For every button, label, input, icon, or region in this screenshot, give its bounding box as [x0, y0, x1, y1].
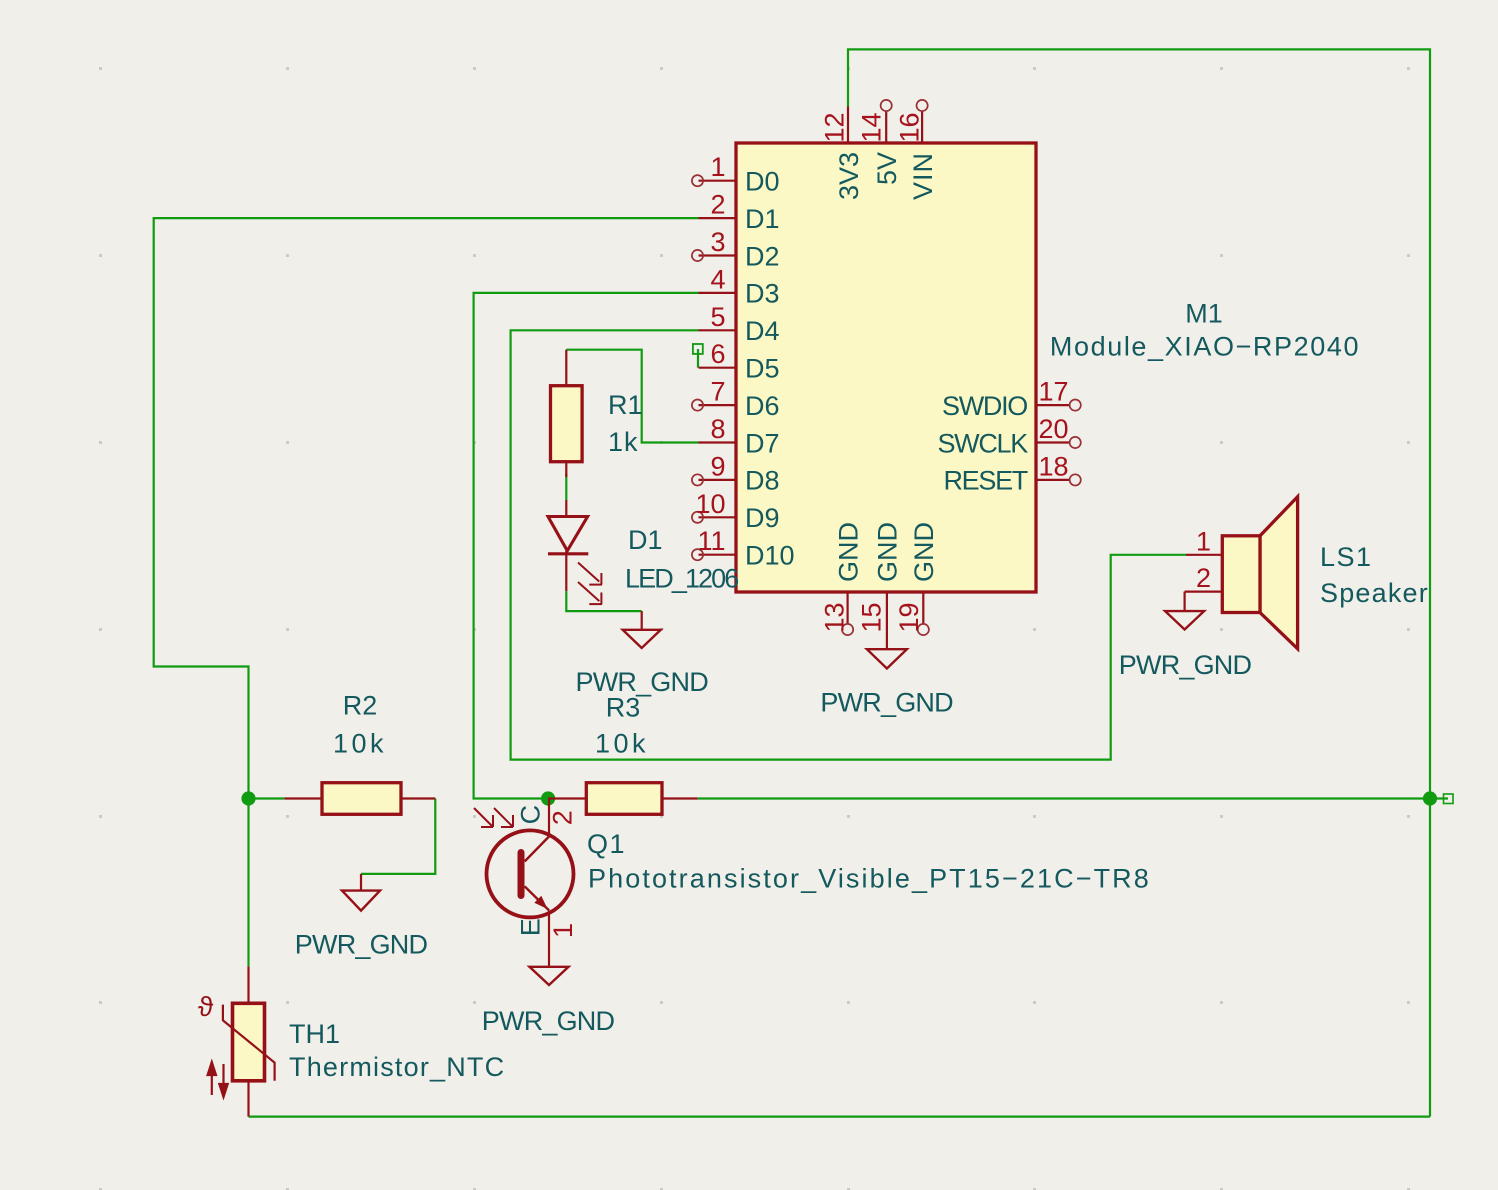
svg-text:Phototransistor_Visible_PT15−2: Phototransistor_Visible_PT15−21C−TR8 [588, 864, 1151, 894]
svg-text:12: 12 [820, 112, 850, 142]
speaker LS1 [1186, 554, 1222, 556]
svg-text:D7: D7 [745, 428, 780, 458]
svg-text:1: 1 [1196, 526, 1211, 556]
svg-text:D0: D0 [745, 167, 780, 197]
svg-text:D1: D1 [628, 525, 663, 555]
svg-text:5V: 5V [872, 152, 902, 185]
wire D5 stub with open end square at M1 pin6 [697, 349, 699, 368]
wire right stub to open end at right junction [1430, 797, 1448, 799]
svg-text:SWCLK: SWCLK [937, 428, 1028, 458]
resistor R1 1k [565, 350, 567, 386]
svg-text:D8: D8 [745, 466, 780, 496]
svg-text:3V3: 3V3 [834, 152, 864, 200]
svg-text:RESET: RESET [943, 466, 1027, 496]
LED D1 LED_1206 [565, 500, 567, 517]
svg-text:3: 3 [710, 227, 725, 257]
svg-text:5: 5 [710, 302, 725, 332]
M1 bottom pin stubs 13,15,19 [848, 592, 924, 649]
junction left (248.5,798.5) [241, 791, 255, 805]
svg-text:19: 19 [894, 602, 924, 632]
junction mid (548.1,798.5) [541, 791, 555, 805]
svg-text:16: 16 [895, 112, 925, 142]
svg-text:D9: D9 [745, 503, 780, 533]
svg-text:R3: R3 [606, 693, 641, 723]
svg-text:LED_1206: LED_1206 [625, 564, 738, 594]
svg-text:Speaker: Speaker [1320, 578, 1429, 608]
svg-text:10k: 10k [595, 729, 649, 759]
svg-text:7: 7 [710, 377, 725, 407]
M1 right pin circles 17,20,18 [1070, 400, 1081, 486]
svg-text:C: C [516, 805, 546, 825]
svg-text:11: 11 [697, 526, 725, 556]
wire R2 right pin to ground [361, 799, 435, 874]
svg-text:ϑ: ϑ [198, 991, 214, 1022]
svg-text:1: 1 [710, 152, 725, 182]
wire D4 net: M1 pin5 left, down, across, up to speaker pin1 [511, 330, 1186, 759]
wire bottom net: TH1 bottom to right vertical [249, 1115, 1431, 1117]
M1 left pin numbers [695, 152, 725, 556]
M1 top pin stubs 12,14,16 [848, 107, 922, 144]
svg-text:Q1: Q1 [587, 829, 626, 859]
svg-text:2: 2 [547, 810, 577, 825]
svg-text:PWR_GND: PWR_GND [575, 667, 708, 697]
svg-text:D10: D10 [745, 541, 795, 571]
svg-text:PWR_GND: PWR_GND [295, 930, 428, 960]
svg-text:15: 15 [857, 602, 887, 632]
power ground symbol PWR_GND at D1 [641, 611, 643, 630]
wire junction to R2 left pin [249, 797, 285, 799]
M1 right pin names [937, 391, 1028, 496]
module U/M1 body Module_XIAO-RP2040 [736, 143, 1036, 592]
svg-text:17: 17 [1039, 377, 1069, 407]
svg-text:2: 2 [710, 190, 725, 220]
svg-text:13: 13 [819, 602, 849, 632]
svg-text:6: 6 [710, 339, 725, 369]
svg-text:GND: GND [833, 522, 863, 582]
svg-text:SWDIO: SWDIO [942, 391, 1027, 421]
wire D3 net: M1 pin4 left, down, to Q1 collector junction [474, 293, 699, 799]
power ground symbol PWR_GND at M1 pin 15 [867, 649, 907, 668]
transistor Q1 Phototransistor PT15-21C-TR8 [487, 830, 574, 917]
svg-text:PWR_GND: PWR_GND [482, 1006, 615, 1036]
svg-text:4: 4 [710, 264, 725, 294]
svg-text:14: 14 [856, 112, 886, 142]
svg-text:Module_XIAO−RP2040: Module_XIAO−RP2040 [1050, 332, 1360, 362]
wire D1 net: M1 pin2 left, down, to R2/TH1 junction [154, 218, 699, 966]
svg-text:2: 2 [1196, 563, 1211, 593]
unconnected wire end square (right) [1444, 794, 1454, 804]
svg-text:GND: GND [873, 522, 903, 582]
svg-text:D5: D5 [745, 354, 780, 384]
M1 left pin stubs pins 1-11 [699, 181, 737, 555]
svg-text:M1: M1 [1185, 299, 1223, 329]
svg-text:Thermistor_NTC: Thermistor_NTC [289, 1052, 505, 1082]
svg-text:PWR_GND: PWR_GND [1119, 650, 1252, 680]
M1 unconnected pin circles left [692, 175, 703, 560]
power ground symbol PWR_GND at Q1 emitter [530, 967, 569, 985]
svg-text:D3: D3 [745, 279, 780, 309]
Q1 incident light arrows [474, 808, 513, 827]
power ground symbol PWR_GND at R2 [360, 874, 362, 891]
svg-text:1: 1 [548, 923, 578, 938]
svg-text:E: E [516, 918, 546, 936]
svg-text:10: 10 [695, 489, 725, 519]
svg-text:R1: R1 [608, 390, 643, 420]
svg-text:20: 20 [1039, 414, 1069, 444]
M1 bottom pin circles 13,19 [842, 624, 929, 635]
resistor R3 10k [548, 797, 586, 799]
svg-text:9: 9 [710, 451, 725, 481]
wire D7 net: M1 pin8 to R1 top [566, 350, 698, 443]
svg-text:D4: D4 [745, 316, 780, 346]
wire D1 LED bottom to ground [566, 591, 641, 611]
svg-text:D1: D1 [745, 204, 780, 234]
M1 bottom pin names GND GND GND (rotated) [833, 522, 939, 582]
wire 3V3 net: M1 pin12 up, across top, down right side [848, 49, 1430, 1116]
svg-text:LS1: LS1 [1320, 542, 1373, 572]
svg-text:18: 18 [1039, 451, 1069, 481]
M1 right pin stubs 17,20,18 [1036, 405, 1070, 480]
D1 light emission arrows [578, 563, 602, 605]
svg-text:1k: 1k [608, 427, 639, 457]
M1 top pin circles 14,16 [881, 100, 928, 111]
resistor R2 10k [284, 797, 322, 799]
svg-text:TH1: TH1 [289, 1019, 340, 1049]
TH1 temperature arrows [208, 1062, 228, 1097]
svg-text:R2: R2 [343, 691, 378, 721]
wire R1 bottom to D1 LED top [565, 474, 567, 501]
svg-text:VIN: VIN [908, 152, 938, 200]
M1 top pin numbers (rotated) [820, 112, 925, 142]
junction right (1430,798.5) [1423, 791, 1437, 805]
TH1 NTC slash mark [223, 1005, 275, 1081]
svg-text:D2: D2 [745, 241, 780, 271]
thermistor TH1 Thermistor_NTC [247, 966, 249, 1003]
M1 bottom pin numbers (rotated) [819, 602, 924, 632]
svg-text:GND: GND [909, 522, 939, 582]
M1 top pin names 3V3 5V VIN (rotated) [834, 152, 938, 200]
svg-text:8: 8 [710, 414, 725, 444]
power ground symbol PWR_GND at LS1 pin2 [1183, 592, 1185, 612]
M1 right pin numbers [1039, 377, 1069, 482]
wire R3 right pin to right junction [698, 797, 1430, 799]
svg-text:PWR_GND: PWR_GND [820, 688, 953, 718]
svg-text:D6: D6 [745, 391, 780, 421]
M1 left pin names D0-D10 [745, 167, 795, 571]
svg-text:10k: 10k [333, 729, 387, 759]
